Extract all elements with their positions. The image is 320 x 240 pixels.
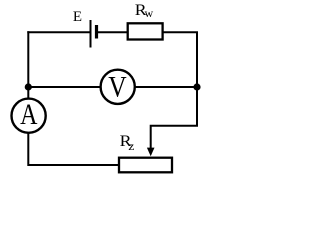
label Rz	[120, 132, 135, 153]
ammeter letter A	[20, 97, 38, 130]
rheostat wiper arrowhead	[147, 148, 155, 157]
wire voltmeter to right junction	[134, 86, 197, 88]
wire left junction down to ammeter	[27, 87, 29, 100]
wire left junction to voltmeter	[28, 86, 101, 88]
voltmeter letter V	[108, 71, 126, 104]
label E	[73, 9, 82, 25]
wire top-left segment (left corner to battery)	[27, 31, 89, 33]
wire ammeter down to bottom-left corner and bottom wire to Rz	[27, 133, 119, 166]
svg-text:A: A	[20, 97, 38, 130]
svg-text:w: w	[145, 6, 154, 20]
resistor Rw	[128, 23, 163, 39]
wire battery to resistor Rw	[98, 31, 128, 33]
wire Rw to top-right corner and down right side	[163, 32, 198, 87]
node right junction	[193, 83, 200, 90]
ammeter U-A circle	[12, 99, 46, 133]
voltmeter U-V circle	[101, 70, 135, 104]
battery E long plate	[90, 20, 92, 48]
svg-text:V: V	[108, 71, 126, 104]
node left junction	[25, 83, 32, 90]
svg-text:E: E	[73, 9, 82, 25]
wire right side below junction to rheostat tap	[151, 88, 197, 149]
svg-text:z: z	[128, 139, 134, 153]
rheostat Rz body	[119, 158, 172, 173]
battery E short plate	[95, 25, 98, 39]
label Rw	[135, 1, 154, 20]
wire left side top (corner down to left junction)	[27, 31, 29, 87]
